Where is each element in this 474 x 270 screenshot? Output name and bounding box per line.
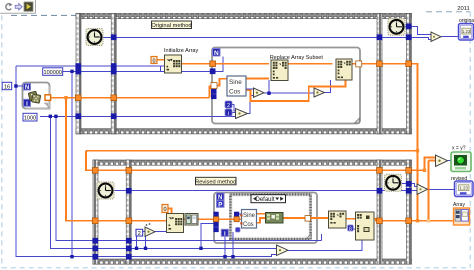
svg-text:1.23: 1.23: [462, 29, 471, 34]
svg-text:100000: 100000: [44, 70, 62, 76]
svg-text:N: N: [25, 85, 29, 91]
svg-text:Sine: Sine: [229, 79, 242, 86]
svg-text:0: 0: [163, 207, 166, 213]
svg-text:Revised method: Revised method: [195, 179, 236, 185]
svg-text:0: 0: [152, 59, 155, 65]
svg-text:8: 8: [349, 226, 352, 232]
svg-text:16: 16: [4, 84, 10, 90]
svg-text:original: original: [459, 18, 474, 24]
svg-text:2: 2: [227, 103, 230, 109]
svg-text:Array: Array: [453, 202, 465, 208]
svg-text:P: P: [218, 202, 222, 208]
svg-text:1.23: 1.23: [460, 186, 469, 191]
svg-text:Original method: Original method: [151, 23, 191, 29]
svg-text:x = y?: x = y?: [452, 146, 466, 152]
svg-text:Cos: Cos: [243, 222, 254, 228]
svg-text:i: i: [228, 111, 229, 117]
svg-text:2011: 2011: [457, 6, 469, 12]
svg-text:Initialize Array: Initialize Array: [164, 48, 198, 54]
svg-text:Sine: Sine: [243, 213, 256, 219]
svg-text:Cos: Cos: [229, 89, 240, 96]
svg-text:N: N: [214, 50, 219, 57]
svg-text:2: 2: [138, 231, 141, 237]
svg-text:Default: Default: [255, 197, 274, 203]
svg-text:revised: revised: [451, 176, 467, 182]
svg-text:Replace Array Subset: Replace Array Subset: [270, 55, 324, 61]
svg-text:1000: 1000: [24, 116, 36, 122]
